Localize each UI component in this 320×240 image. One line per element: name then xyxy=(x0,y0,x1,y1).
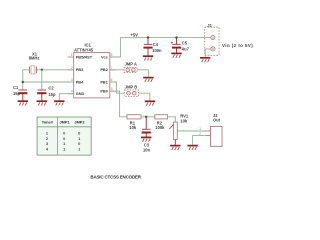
table tone jumpers xyxy=(37,117,91,155)
wire R1 to R2 xyxy=(141,116,155,118)
ground xyxy=(54,101,64,105)
svg-text:10n: 10n xyxy=(143,148,151,153)
svg-text:BASIC CTCSS ENCODER: BASIC CTCSS ENCODER xyxy=(90,175,141,180)
wire J2 pin2 to ground xyxy=(193,136,206,145)
svg-text:15p: 15p xyxy=(48,92,56,97)
svg-text:JMP1: JMP1 xyxy=(60,119,71,124)
capacitor C1 xyxy=(13,85,27,100)
svg-text:PB5/RST: PB5/RST xyxy=(76,54,93,59)
svg-text:PB3: PB3 xyxy=(76,67,84,72)
wire crystal left to C1 xyxy=(23,70,30,90)
pin 1 J1 xyxy=(211,36,215,40)
svg-text:10k: 10k xyxy=(129,125,137,130)
jumper JMP B xyxy=(124,85,138,97)
node junction C4 xyxy=(147,36,149,38)
svg-text:Out: Out xyxy=(213,118,221,123)
svg-text:4: 4 xyxy=(71,90,73,94)
resistor R1 xyxy=(127,115,141,130)
svg-text:JMP B: JMP B xyxy=(125,85,137,90)
IC1 pin stubs right xyxy=(110,57,116,91)
connector J1 xyxy=(205,23,219,55)
svg-text:C2: C2 xyxy=(48,86,54,91)
capacitor C2 xyxy=(37,86,56,101)
capacitor C4 xyxy=(143,38,162,56)
IC1 pin names xyxy=(76,54,109,96)
pin 2 J1 xyxy=(211,47,215,51)
svg-text:2: 2 xyxy=(71,66,73,70)
svg-text:1: 1 xyxy=(199,127,201,131)
capacitor C5 xyxy=(171,38,190,53)
svg-text:6: 6 xyxy=(111,78,113,82)
IC1 pin stubs left xyxy=(68,57,74,94)
crystal X1 xyxy=(29,52,40,74)
svg-text:0: 0 xyxy=(78,131,80,136)
wire PB2 to JMP A xyxy=(110,69,124,71)
svg-text:GND: GND xyxy=(76,91,85,96)
svg-text:C4: C4 xyxy=(153,42,159,47)
ground xyxy=(170,146,180,150)
svg-text:8: 8 xyxy=(111,53,113,57)
ground xyxy=(200,58,210,62)
svg-text:C5: C5 xyxy=(182,41,188,46)
wire JMP A to ground xyxy=(137,70,148,77)
svg-text:8MHz: 8MHz xyxy=(29,55,40,60)
ground xyxy=(141,137,151,141)
ground xyxy=(143,78,153,82)
svg-text:JMP A: JMP A xyxy=(125,62,137,67)
ground xyxy=(171,53,181,57)
wire PB0 to R1 xyxy=(110,91,127,117)
svg-text:Tone#: Tone# xyxy=(42,119,54,124)
wire Vcc pin to +5V rail xyxy=(110,38,211,57)
svg-text:5: 5 xyxy=(111,87,113,91)
wire RV1 wiper to J2 pin1 xyxy=(177,130,206,132)
svg-text:Vin (2 to 5V): Vin (2 to 5V) xyxy=(222,43,253,48)
wire JMP B to ground xyxy=(139,93,150,100)
wire R2 to RV1 xyxy=(168,117,176,122)
svg-text:1: 1 xyxy=(71,53,73,57)
svg-text:3: 3 xyxy=(71,78,73,82)
ground xyxy=(37,101,47,105)
svg-text:2: 2 xyxy=(199,132,201,136)
ground xyxy=(143,56,153,60)
wire node to C2 xyxy=(41,70,43,90)
svg-text:7: 7 xyxy=(111,66,113,70)
jumper JMP A xyxy=(124,62,137,73)
svg-text:JMP2: JMP2 xyxy=(74,119,85,124)
svg-text:+5V: +5V xyxy=(131,32,139,37)
connector J2 xyxy=(199,113,222,147)
op IC1 box xyxy=(74,42,110,97)
wire GND pin to ground xyxy=(59,94,73,101)
wire node PB4 row xyxy=(22,81,74,83)
svg-text:0: 0 xyxy=(63,136,65,141)
svg-text:ATTINY45: ATTINY45 xyxy=(74,48,94,53)
wire J1 pin2 to ground xyxy=(205,49,211,57)
resistor R2 xyxy=(155,115,168,130)
svg-text:PB0: PB0 xyxy=(100,89,108,94)
svg-text:0: 0 xyxy=(63,131,65,136)
potentiometer RV1 xyxy=(169,114,189,145)
svg-text:PB4: PB4 xyxy=(76,79,84,84)
svg-text:PB1: PB1 xyxy=(100,79,108,84)
svg-text:PB2: PB2 xyxy=(100,67,108,72)
ground xyxy=(187,146,197,150)
ground xyxy=(18,101,28,105)
svg-text:100k: 100k xyxy=(155,125,165,130)
wire PB1 to JMP B xyxy=(110,82,125,93)
svg-text:10k: 10k xyxy=(180,118,188,123)
svg-text:C1: C1 xyxy=(13,85,19,90)
svg-text:0: 0 xyxy=(78,141,80,146)
wire crystal right to PB3 xyxy=(36,69,73,71)
svg-text:4u7: 4u7 xyxy=(182,46,190,51)
svg-text:Vcc: Vcc xyxy=(101,54,109,59)
ground xyxy=(145,101,155,105)
capacitor C3 xyxy=(142,117,151,153)
node junction C5 xyxy=(175,36,177,38)
svg-text:100n: 100n xyxy=(152,48,162,53)
IC1 pin numbers xyxy=(71,53,113,94)
